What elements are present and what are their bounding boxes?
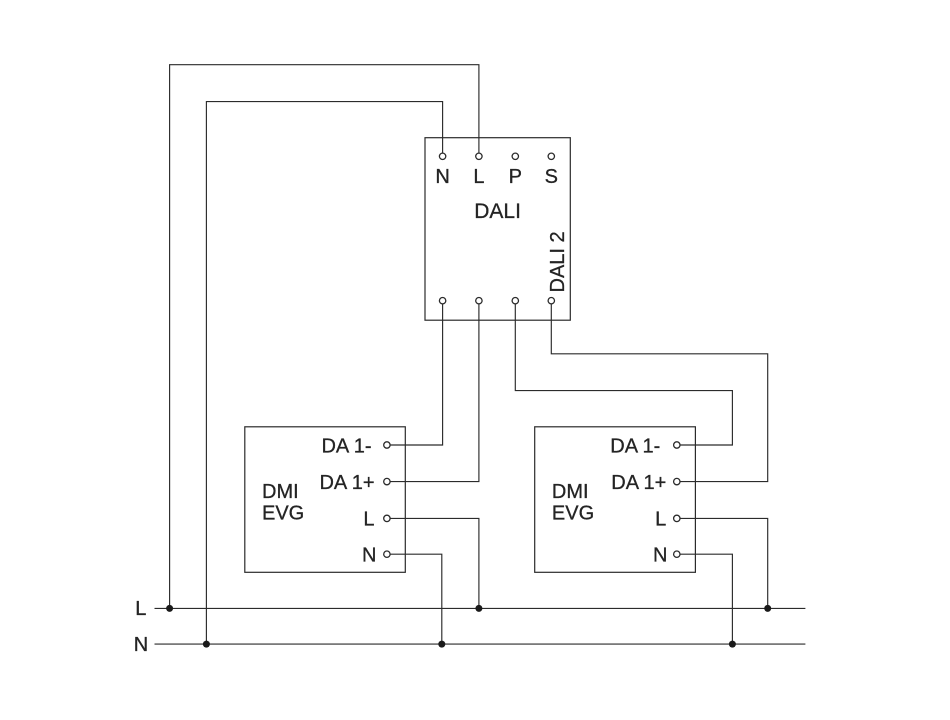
pin DA 1+ of EVG2 bbox=[674, 478, 680, 484]
junction L rail / EVG2 L bbox=[764, 605, 771, 612]
svg-text:N: N bbox=[362, 545, 376, 567]
pin DA 1+ of EVG1 bbox=[384, 478, 390, 484]
net N rail (mains neutral) bbox=[155, 643, 806, 645]
junction N rail / EVG1 N bbox=[438, 641, 445, 648]
wire DALI 2 bus: U1 bottom pin4 to EVG2 DA 1+ bbox=[551, 304, 767, 482]
pin L of EVG1 bbox=[384, 515, 390, 521]
svg-text:DALI 2: DALI 2 bbox=[547, 231, 569, 292]
pin N of EVG2 bbox=[674, 551, 680, 557]
label DMI EVG (EVG2) bbox=[552, 481, 594, 525]
pin N of U1 (top terminal 1) bbox=[439, 153, 445, 159]
svg-text:L: L bbox=[473, 166, 484, 188]
wire DALI bus: U1 bottom pin3 to EVG2 DA 1- bbox=[515, 304, 732, 445]
svg-text:N: N bbox=[435, 166, 449, 188]
junction N rail / EVG2 N bbox=[729, 641, 736, 648]
svg-text:EVG: EVG bbox=[262, 503, 304, 525]
pin DA 1- of EVG1 bbox=[384, 442, 390, 448]
pin DA1 of U1 (bottom terminal 1) bbox=[439, 298, 445, 304]
wire EVG1 L to L rail bbox=[390, 518, 479, 608]
svg-text:P: P bbox=[509, 166, 522, 188]
net L rail (mains phase) bbox=[155, 607, 806, 609]
svg-text:L: L bbox=[655, 509, 666, 531]
ballast EVG1 (left DMI EVG box) bbox=[245, 427, 405, 573]
svg-text:DA 1+: DA 1+ bbox=[611, 472, 666, 494]
junction L rail / EVG1 L bbox=[475, 605, 482, 612]
svg-text:L: L bbox=[135, 598, 146, 620]
label DMI EVG (EVG1) bbox=[262, 481, 304, 525]
pin L of EVG2 bbox=[674, 515, 680, 521]
svg-text:DA 1-: DA 1- bbox=[321, 435, 371, 457]
svg-text:N: N bbox=[653, 545, 667, 567]
pin DA 1- of EVG2 bbox=[674, 442, 680, 448]
wire N-feed: N rail up and over to U1 pin N bbox=[206, 102, 442, 645]
svg-text:N: N bbox=[134, 634, 148, 656]
wire EVG2 N to N rail bbox=[680, 554, 732, 644]
svg-text:DALI: DALI bbox=[474, 200, 521, 223]
junction L rail / L-feed bbox=[166, 605, 173, 612]
svg-text:DMI: DMI bbox=[552, 481, 589, 503]
pin L of U1 (top terminal 2) bbox=[476, 153, 482, 159]
pin S of U1 (top terminal 4) bbox=[548, 153, 554, 159]
pin DA2 of U1 (bottom terminal 2) bbox=[476, 298, 482, 304]
junction N rail / N-feed bbox=[203, 641, 210, 648]
svg-text:DMI: DMI bbox=[262, 481, 299, 503]
wire EVG1 N to N rail bbox=[390, 554, 442, 644]
DALI control unit U1 (box) bbox=[425, 138, 570, 321]
svg-text:DA 1+: DA 1+ bbox=[319, 472, 374, 494]
wire DALI bus: U1 bottom pin1 to EVG1 DA 1- bbox=[390, 304, 443, 445]
svg-text:DA 1-: DA 1- bbox=[610, 435, 660, 457]
wire EVG2 L to L rail bbox=[680, 518, 768, 608]
pin P of U1 (top terminal 3) bbox=[512, 153, 518, 159]
ballast EVG2 (right DMI EVG box) bbox=[535, 427, 696, 573]
wire DALI bus: U1 bottom pin2 to EVG1 DA 1+ bbox=[390, 304, 479, 482]
svg-text:EVG: EVG bbox=[552, 503, 594, 525]
svg-text:S: S bbox=[545, 166, 558, 188]
svg-text:L: L bbox=[363, 509, 374, 531]
pin DA3 of U1 (bottom terminal 3) bbox=[512, 298, 518, 304]
wire L-feed: L rail up and over to U1 pin L bbox=[170, 65, 479, 609]
pin DALI2 of U1 (bottom terminal 4) bbox=[548, 298, 554, 304]
pin N of EVG1 bbox=[384, 551, 390, 557]
